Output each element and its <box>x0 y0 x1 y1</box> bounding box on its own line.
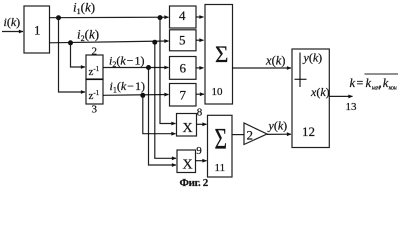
svg-text:x(k): x(k) <box>310 85 330 99</box>
svg-text:k: k <box>366 76 372 90</box>
svg-text:8: 8 <box>197 107 203 119</box>
svg-text:7: 7 <box>180 88 187 103</box>
svg-text:i2(k − 1): i2(k − 1) <box>109 54 144 70</box>
svg-text:z-1: z-1 <box>89 89 100 102</box>
svg-text:Σ: Σ <box>215 122 228 155</box>
svg-text:i1(k − 1): i1(k − 1) <box>110 79 145 95</box>
svg-text:=: = <box>357 76 364 90</box>
svg-text:z-1: z-1 <box>89 65 100 78</box>
svg-text:Фиг. 2: Фиг. 2 <box>180 177 209 189</box>
svg-text:3: 3 <box>92 104 98 116</box>
svg-text:X: X <box>183 158 193 173</box>
svg-text:X: X <box>183 121 193 136</box>
svg-text:i(k): i(k) <box>4 15 21 29</box>
svg-text:13: 13 <box>346 101 358 113</box>
svg-text:2: 2 <box>92 46 98 58</box>
svg-text:10: 10 <box>212 86 224 98</box>
svg-text:,: , <box>379 76 382 90</box>
svg-text:x(k): x(k) <box>265 54 285 68</box>
svg-text:i2(k): i2(k) <box>77 27 99 44</box>
svg-text:12: 12 <box>302 124 315 139</box>
svg-text:k: k <box>350 76 356 90</box>
svg-text:кон: кон <box>389 86 397 92</box>
svg-text:4: 4 <box>179 8 186 23</box>
svg-text:y(k): y(k) <box>268 119 288 133</box>
svg-text:Σ: Σ <box>215 42 228 67</box>
svg-text:y(k): y(k) <box>303 51 323 65</box>
svg-text:9: 9 <box>196 145 202 157</box>
svg-text:6: 6 <box>180 61 187 76</box>
svg-text:11: 11 <box>215 162 226 174</box>
svg-text:1: 1 <box>34 23 41 38</box>
svg-text:i1(k): i1(k) <box>73 0 95 16</box>
svg-text:2: 2 <box>247 128 254 143</box>
svg-text:5: 5 <box>179 33 186 48</box>
